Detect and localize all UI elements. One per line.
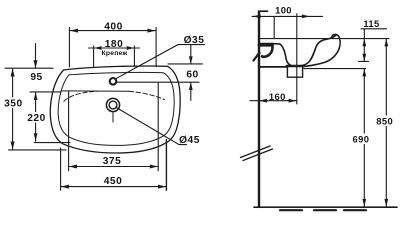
wall top tick [260,10,268,12]
svg-text:95: 95 [30,72,42,83]
dim 100 line [252,15,323,17]
dim 100 right arrow [302,15,310,19]
floor hatch 2 [314,209,336,211]
faucet hole [110,78,117,85]
bracket lug through wall [254,53,260,61]
basin side profile: mounting bracket bar [260,43,273,47]
dim 60 lower tail [190,82,192,100]
lower reference line (underside level, 690) [304,68,366,70]
extension line top (rim level) [5,67,53,69]
basin outer outline [50,66,180,153]
dim 180 line [89,47,140,49]
dim 690 vertical line [363,69,365,207]
extension line at outer bottom (350) [9,149,67,151]
dim 160 right arrow [289,99,297,103]
svg-text:Крепеж: Крепеж [102,50,128,57]
dim 450 right arrow [158,185,166,189]
dim 95 vertical line with down arrow [35,44,37,69]
floor line [254,206,397,208]
dim 115 leader underline [361,28,387,30]
dim 180 left extension line [93,46,95,67]
dim 690 bottom arrow [362,199,366,207]
dim 850 bottom arrow [384,199,388,207]
label 220 [27,112,47,124]
svg-text:350: 350 [4,99,23,110]
dim 850 top arrow [384,39,388,47]
svg-text:850: 850 [376,115,393,126]
svg-text:375: 375 [103,156,122,167]
faucet centerline (vertical) [273,16,275,38]
bracket hook [262,47,273,57]
label 350 [2,98,25,110]
dim 180 right arrow [127,46,135,50]
basin inner rim line [58,72,174,145]
dim 60 top arrow [189,56,193,64]
svg-text:690: 690 [352,133,369,144]
dim 450 left extension line [60,148,62,190]
dim 220 bottom arrow [34,133,38,141]
basin underside line [260,66,288,68]
drain outer circle [106,98,119,111]
dim 375 line [69,166,159,168]
short reference tick under 115 [359,60,369,62]
dim 400 right extension line [155,28,157,67]
dim 450 left arrow [61,185,69,189]
svg-text:Ø35: Ø35 [184,35,205,46]
wall break mark line 2 [243,149,273,161]
floor hatch 3 [344,209,366,211]
leader line to drain (Ø45) [117,108,187,145]
dim 400 right arrow [148,29,156,33]
dim 350 bottom arrow [11,142,15,150]
dim 115 bottom arrow [362,54,366,62]
dim 60 bottom arrow [189,82,193,90]
drain trap box thick top [287,65,303,68]
dim 350 vertical line [12,68,14,149]
bowl interior profile [280,36,336,67]
drain inner circle [109,101,117,109]
dim 60 upper reference line [168,63,203,65]
label 850 [376,115,394,126]
bowl hidden edge (dashed left) [64,91,97,101]
svg-text:400: 400 [104,22,123,33]
drain trap box [287,66,302,77]
dim 690 top arrow [362,69,366,77]
bowl hidden edge (dashed right) [129,91,165,99]
dim 60 vertical line [190,45,192,64]
extension line at inner bottom (220) [34,142,70,144]
dim 450 right extension line [165,140,167,191]
label 690 [352,133,370,144]
svg-text:450: 450 [104,176,123,187]
dim 450 line [61,186,167,188]
dim 220 top arrow [34,92,38,100]
dim 160 left arrow [259,99,267,103]
leader line to faucet hole (Ø35) [116,45,205,79]
dim 115 vertical line [363,29,365,61]
dim 850 vertical line [385,39,387,207]
dim 115 top arrow [362,39,366,47]
dim 400 line [69,30,156,32]
basin front-bottom curve up to lip [303,34,341,66]
dim 180 right extension line [133,46,135,67]
drain centerline tick [112,113,114,122]
bowl hidden edge (solid mid segment) [61,90,129,92]
wall break mark line 1 [241,146,271,158]
svg-text:160: 160 [269,91,286,102]
floor hatch 1 [280,209,302,211]
label 60 [186,69,198,81]
top reference line (rim level, 850) [260,38,390,40]
basin rear deck top [272,43,280,45]
dim 375 right extension line [157,83,159,171]
extension line at bowl top level [30,91,61,93]
dim 400 left arrow [70,29,78,33]
dim 180 left arrow [94,46,102,50]
dim 160 line [250,100,297,102]
svg-text:220: 220 [27,113,46,124]
dim 375 right arrow [150,165,158,169]
dim 100 left arrow [253,15,261,19]
dim 400 left extension line [68,28,70,67]
dim 60 lower reference line [118,81,200,83]
extension line through basin [296,14,298,104]
dim 95 arrow [34,60,38,68]
dim 375 left extension line [68,92,70,171]
dim 350 top arrow [11,69,15,77]
dim 220 vertical line [35,92,37,141]
dim 375 left arrow [69,165,77,169]
svg-text:60: 60 [186,70,198,81]
svg-text:180: 180 [105,39,124,50]
svg-text:Ø45: Ø45 [179,135,200,146]
svg-text:100: 100 [275,5,292,16]
svg-text:115: 115 [363,18,379,29]
wall line [258,12,260,208]
